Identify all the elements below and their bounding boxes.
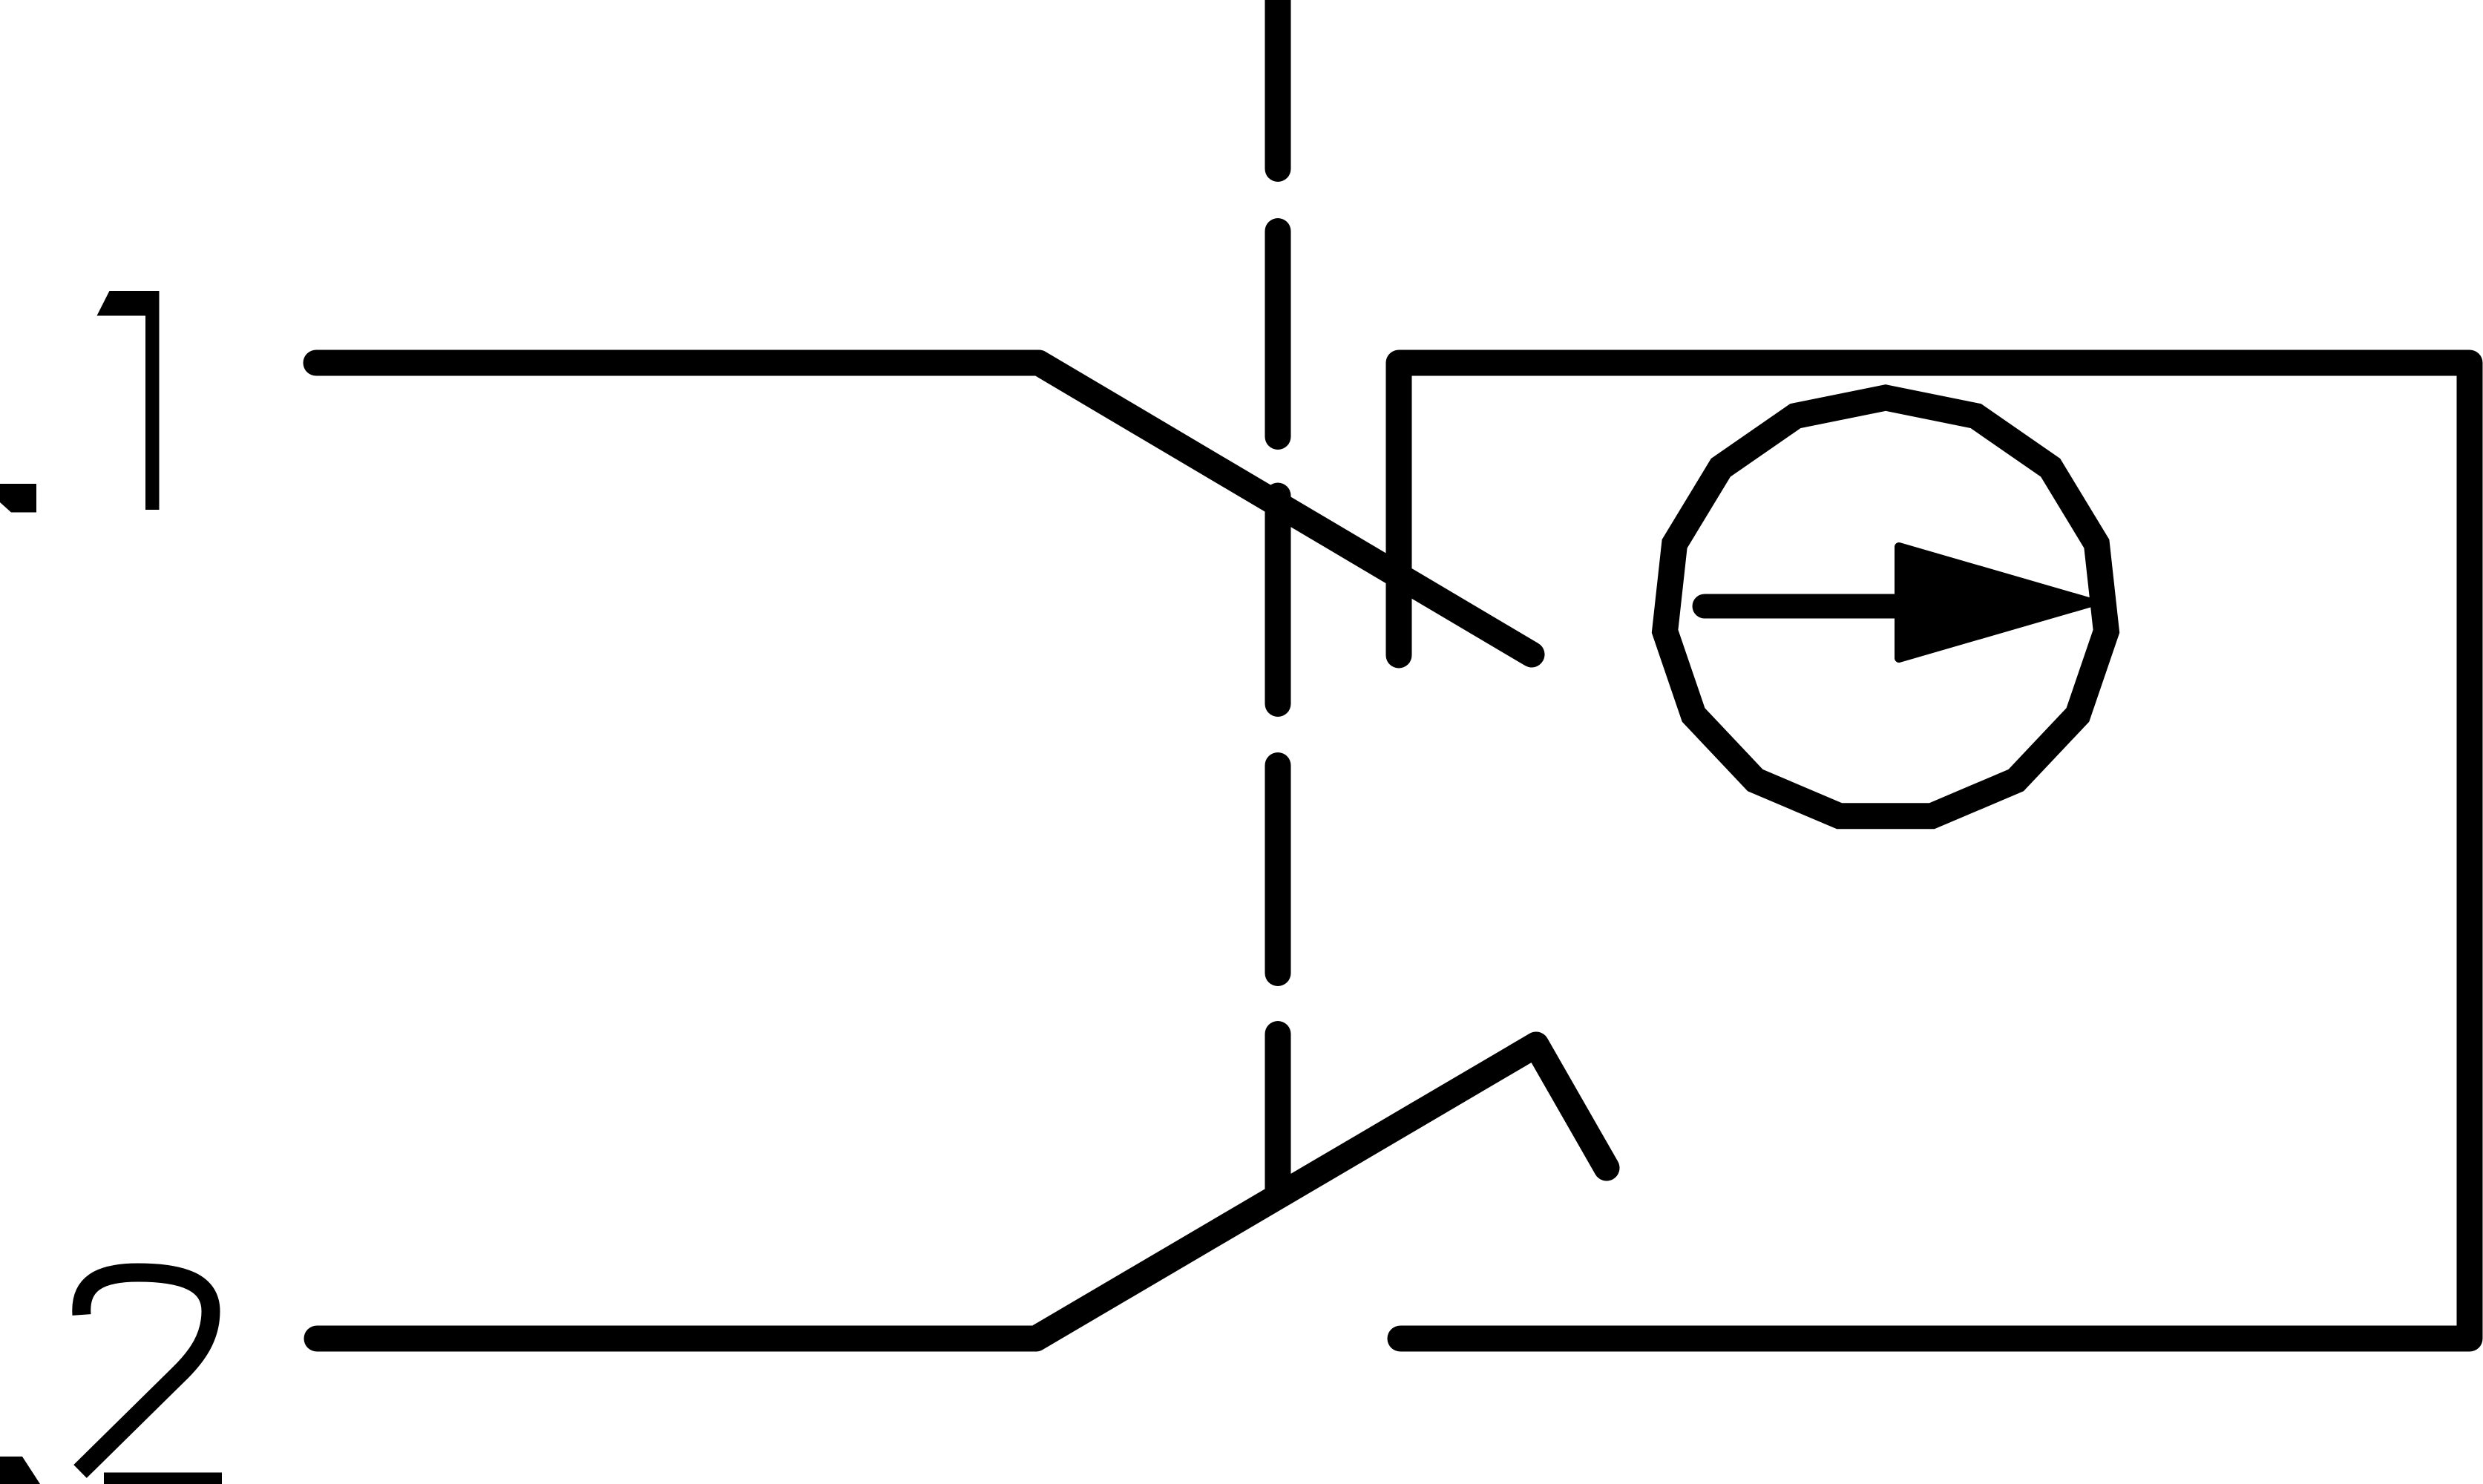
actuator linkage dash 3 [1265, 496, 1291, 704]
terminal label 1 [97, 291, 160, 510]
arrow head [1899, 547, 2091, 658]
arrow shaft [1705, 594, 1929, 619]
proximity indicator circle (15-gon polyline circle) [1665, 398, 2107, 816]
actuator linkage (dashed vertical), dash 1 [1265, 0, 1291, 169]
wire: bottom-left terminal wire + NO contact moving arm with bent tip [317, 1045, 1607, 1339]
actuator linkage dash 5 [1265, 1034, 1291, 1194]
NC contact fixed terminal (vertical) + enclosure loop wire (top, right, bottom) [1399, 363, 2470, 1339]
partial glyph left of label 1 (cut by left edge) [0, 484, 36, 513]
actuator linkage dash 4 [1265, 766, 1291, 974]
wire: top-left terminal wire + NC contact moving arm [316, 363, 1532, 654]
partial glyph left of label 2 (cut by left/bottom edge) [0, 1457, 40, 1484]
terminal label 2 [80, 1273, 222, 1482]
actuator linkage dash 2 [1265, 232, 1291, 437]
